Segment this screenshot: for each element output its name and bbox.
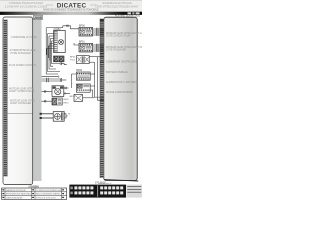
svg-text:AVANT CONDUCTEUR: AVANT CONDUCTEUR: [9, 90, 35, 93]
U1 label 2005: [33, 15, 42, 19]
wires U1 to motor M2 (double feed): [42, 114, 54, 118]
svg-text:MASSE CARROSSERIE: MASSE CARROSSERIE: [106, 91, 133, 94]
svg-text:BF21: BF21: [63, 102, 69, 104]
svg-text:F114: F114: [70, 60, 76, 62]
S1 pin ladder: [54, 31, 57, 52]
wires K1 to U2: [93, 29, 100, 35]
wire U1 to S2: [42, 100, 53, 103]
svg-text:AVANT PASSAGER: AVANT PASSAGER: [10, 102, 31, 105]
inline connector CN2: [67, 25, 68, 28]
legend text: [6, 189, 62, 200]
motor M1 (driver window motor): [52, 86, 64, 97]
S1 illumination symbol: [59, 40, 64, 45]
U2 text lines: [106, 32, 150, 94]
footer cartouche: [126, 185, 142, 198]
wires M1 to bus: [64, 87, 70, 95]
footer toolbar: [69, 185, 126, 198]
wires from U1 to switch S1 (nested harness): [46, 26, 66, 74]
U1 divider: [3, 113, 32, 115]
wires K2 to U2: [74, 43, 100, 51]
svg-text:CONNECTEUR DEBROCHE: CONNECTEUR DEBROCHE: [36, 190, 62, 192]
header background: [0, 0, 142, 12]
toolbar buttons group 1: [74, 186, 93, 194]
legend symbols column marks: [2, 189, 64, 198]
motor M2 (passenger window motor): [53, 112, 64, 122]
page icons on bar: [128, 12, 132, 14]
header right vehicle text: [96, 1, 139, 8]
relay K3: [76, 72, 90, 80]
svg-text:MASSE ELECTRIQUE: MASSE ELECTRIQUE: [6, 189, 26, 192]
svg-text:BASE DE DONNEES TECHNIQUES AUT: BASE DE DONNEES TECHNIQUES AUTOMOBILE: [43, 9, 99, 12]
svg-text:RACCORDEMENT MASSE: RACCORDEMENT MASSE: [36, 193, 61, 196]
connector U1 body (left ECU block): [3, 17, 33, 185]
connector U2 body (right block): [104, 17, 137, 180]
svg-text:C0452: C0452: [54, 28, 62, 31]
svg-text:BF01: BF01: [79, 41, 85, 44]
svg-text:2005: 2005: [34, 16, 42, 20]
U2 inline connectors left of pin strip: [97, 28, 98, 52]
svg-text:BF02: BF02: [76, 69, 82, 72]
svg-text:COMMANDE LV COND.: COMMANDE LV COND.: [11, 36, 37, 39]
M2 bracket: [64, 114, 67, 118]
connector U2 pin strip: [100, 19, 104, 179]
wire V1 to U2: [83, 97, 95, 99]
relay K1: [79, 27, 93, 36]
lamp E3 module: [76, 84, 90, 92]
svg-text:BF30: BF30: [70, 57, 76, 59]
diode V1: [74, 94, 83, 101]
svg-text:BF20: BF20: [63, 99, 69, 101]
svg-text:COMMANDE CENTRALISEE: COMMANDE CENTRALISEE: [106, 61, 138, 64]
svg-text:ALIMENTATION + BATTERIE: ALIMENTATION + BATTERIE: [106, 81, 138, 84]
gradient title bar: [0, 12, 142, 15]
svg-text:2.0 HDI RHY DU 12/1999 AU 12/2: 2.0 HDI RHY DU 12/1999 AU 12/2003: [5, 5, 48, 8]
fuse F1: [77, 56, 90, 64]
wires E3: [90, 86, 94, 97]
svg-text:EPISSURE SUR FAISCEAU: EPISSURE SUR FAISCEAU: [6, 193, 31, 196]
toolbar small marks: [70, 187, 72, 190]
wire U1 splice to CN1: [42, 76, 59, 78]
wire U1 to M1: [42, 90, 53, 93]
toolbar buttons group 2: [100, 186, 123, 194]
svg-text:BF00: BF00: [79, 25, 85, 28]
svg-text:LIAISON BLINDEE: LIAISON BLINDEE: [6, 196, 23, 199]
wires F1 to U2: [89, 57, 100, 101]
svg-text:VITRE PASSAGER: VITRE PASSAGER: [10, 52, 31, 55]
relay K2: [79, 43, 93, 52]
twisted pair wires to motor M1: [42, 78, 67, 82]
connector U1 pin strip: [4, 20, 8, 177]
legend table: [2, 188, 67, 199]
lamps E1 E2 (switch illumination): [53, 56, 64, 62]
connector U1 side band: [33, 18, 42, 181]
svg-text:BF10: BF10: [70, 96, 76, 98]
header left vehicle text: [5, 1, 48, 8]
wire S1 to relay K1: [67, 26, 80, 29]
toolbar divider: [96, 185, 99, 196]
svg-text:PLUS APRES CONTACT: PLUS APRES CONTACT: [9, 64, 36, 67]
svg-text:POINT DE JONCTION: POINT DE JONCTION: [36, 197, 56, 199]
M2 terminals: [40, 113, 42, 115]
svg-text:C00145: C00145: [30, 186, 38, 188]
wires K3: [72, 74, 95, 88]
svg-text:COTE CONDUCTEUR: COTE CONDUCTEUR: [106, 35, 131, 38]
switch S1 (window switch module): [54, 30, 66, 52]
svg-text:BOITIER FUSIBLES: BOITIER FUSIBLES: [106, 71, 128, 74]
U2 pins: [100, 20, 104, 101]
U2 bottom edge: [104, 180, 138, 181]
svg-text:M: M: [68, 114, 70, 116]
coil connector CN1: [60, 62, 67, 65]
switch S2 (passenger switch): [52, 98, 62, 105]
svg-text:COTE PASSAGER: COTE PASSAGER: [106, 49, 127, 52]
svg-text:LEVE VITRES ELECTRIQUES AVANT: LEVE VITRES ELECTRIQUES AVANT: [96, 5, 139, 8]
